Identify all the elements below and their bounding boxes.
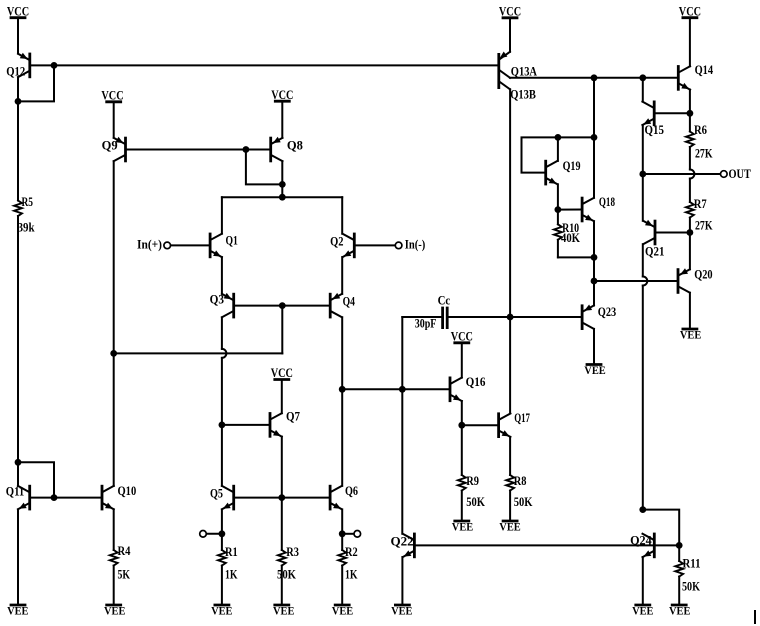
svg-text:R6: R6 <box>694 123 707 137</box>
svg-text:Q1: Q1 <box>226 234 238 248</box>
svg-text:5K: 5K <box>118 568 131 582</box>
svg-text:VCC: VCC <box>101 89 123 103</box>
svg-text:Q11: Q11 <box>6 485 24 499</box>
svg-text:Q7: Q7 <box>286 409 300 423</box>
svg-text:VEE: VEE <box>391 606 413 618</box>
svg-text:Q10: Q10 <box>118 484 137 498</box>
svg-text:Q18: Q18 <box>599 195 615 209</box>
svg-text:R1: R1 <box>225 545 238 559</box>
svg-text:Q22: Q22 <box>391 534 414 548</box>
svg-text:Q12: Q12 <box>6 65 25 79</box>
svg-text:VEE: VEE <box>7 606 29 618</box>
svg-text:27K: 27K <box>695 218 713 232</box>
svg-text:Q20: Q20 <box>694 267 712 281</box>
svg-text:27K: 27K <box>695 146 713 160</box>
svg-text:Q21: Q21 <box>645 245 664 259</box>
svg-text:Q24: Q24 <box>630 533 652 547</box>
svg-text:Q13B: Q13B <box>510 88 536 102</box>
svg-text:Q17: Q17 <box>514 411 530 425</box>
svg-text:In(-): In(-) <box>405 238 426 252</box>
svg-text:40K: 40K <box>561 231 580 245</box>
svg-text:R3: R3 <box>286 545 299 559</box>
svg-text:VEE: VEE <box>632 606 654 618</box>
svg-text:VCC: VCC <box>7 4 29 18</box>
svg-text:Q15: Q15 <box>645 123 664 137</box>
svg-text:Q23: Q23 <box>598 305 616 319</box>
svg-text:OUT: OUT <box>729 167 751 181</box>
svg-text:Q16: Q16 <box>466 375 486 389</box>
svg-text:In(+): In(+) <box>137 237 162 251</box>
svg-text:50K: 50K <box>682 579 700 593</box>
svg-text:1K: 1K <box>345 568 358 582</box>
svg-text:R4: R4 <box>118 544 131 558</box>
svg-text:R2: R2 <box>345 545 358 559</box>
svg-text:VCC: VCC <box>499 5 521 19</box>
svg-text:VEE: VEE <box>584 365 606 377</box>
svg-text:VEE: VEE <box>104 606 126 618</box>
svg-text:Q4: Q4 <box>343 294 355 308</box>
svg-text:Q3: Q3 <box>210 292 224 306</box>
svg-text:R5: R5 <box>22 195 34 209</box>
svg-text:Q19: Q19 <box>563 159 581 173</box>
svg-text:50K: 50K <box>277 568 296 582</box>
svg-text:39k: 39k <box>18 221 35 235</box>
svg-text:VCC: VCC <box>271 88 293 102</box>
svg-text:Q13A: Q13A <box>511 65 537 79</box>
svg-text:50K: 50K <box>466 495 485 509</box>
svg-text:30pF: 30pF <box>415 316 437 330</box>
svg-text:Cc: Cc <box>438 294 451 308</box>
svg-text:1K: 1K <box>225 568 238 582</box>
svg-text:VEE: VEE <box>680 330 702 342</box>
svg-text:Q14: Q14 <box>695 63 714 77</box>
svg-text:VCC: VCC <box>679 4 701 18</box>
svg-text:VEE: VEE <box>273 606 295 618</box>
svg-text:VEE: VEE <box>211 606 233 618</box>
svg-text:Q6: Q6 <box>345 484 358 498</box>
svg-text:Q5: Q5 <box>210 486 223 500</box>
svg-text:VEE: VEE <box>332 606 354 618</box>
svg-text:50K: 50K <box>514 495 533 509</box>
svg-text:R8: R8 <box>514 474 527 488</box>
svg-text:VEE: VEE <box>669 606 691 618</box>
svg-text:VCC: VCC <box>271 366 293 380</box>
svg-text:R9: R9 <box>466 474 479 488</box>
svg-text:R11: R11 <box>683 556 701 570</box>
svg-text:Q9: Q9 <box>102 138 118 152</box>
svg-text:Q2: Q2 <box>330 235 343 249</box>
svg-text:Q8: Q8 <box>287 138 303 152</box>
svg-text:VCC: VCC <box>451 330 473 344</box>
svg-text:VEE: VEE <box>452 522 474 534</box>
svg-text:VEE: VEE <box>499 522 521 534</box>
svg-text:R7: R7 <box>694 197 707 211</box>
